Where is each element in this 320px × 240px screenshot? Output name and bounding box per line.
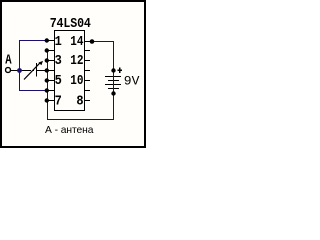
svg-text:7: 7 [55, 92, 62, 108]
svg-text:10: 10 [70, 72, 83, 89]
svg-text:A: A [5, 52, 12, 68]
svg-text:74LS04: 74LS04 [50, 15, 91, 31]
svg-text:5: 5 [55, 72, 62, 88]
svg-text:3: 3 [55, 52, 62, 68]
svg-text:8: 8 [76, 92, 83, 108]
svg-text:14: 14 [70, 33, 84, 50]
svg-text:12: 12 [70, 52, 83, 69]
svg-text:9V: 9V [124, 73, 140, 88]
svg-text:А - антена: А - антена [45, 125, 94, 136]
svg-text:1: 1 [55, 33, 62, 49]
